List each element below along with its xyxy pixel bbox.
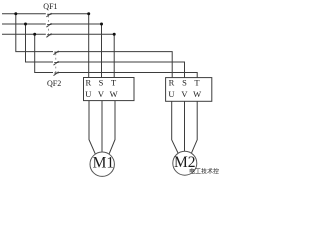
svg-text:U: U xyxy=(85,89,91,99)
svg-text:T: T xyxy=(194,77,200,87)
wire M1 lead V xyxy=(101,101,103,152)
wire branch 1 (tap L1 to QF2 to M2 box R) xyxy=(16,14,172,78)
wire M2 lead U xyxy=(172,101,179,153)
svg-text:QF1: QF1 xyxy=(43,2,57,11)
junction dot tap L3 xyxy=(33,33,36,36)
QF2 linkage (dashed) xyxy=(55,53,57,74)
svg-text:T: T xyxy=(111,77,117,87)
breaker QF2 pole 2 xyxy=(54,61,59,65)
breaker QF2 pole 3 xyxy=(54,72,59,76)
wire M1 lead U xyxy=(89,101,95,155)
svg-text:S: S xyxy=(182,77,187,87)
junction dot tap L1 xyxy=(14,12,17,15)
wire bus L3 xyxy=(2,34,114,77)
terminal box X2 xyxy=(166,78,212,102)
junction dot tap L2 xyxy=(24,23,27,26)
svg-text:V: V xyxy=(181,89,188,99)
breaker QF1 pole 2 xyxy=(46,23,51,27)
wire bus L1 xyxy=(2,14,89,78)
wire branch 3 (tap L3 to QF2 to M2 box T) xyxy=(35,34,198,77)
junction dot bus3 end xyxy=(113,33,116,36)
motor M1 xyxy=(90,152,114,176)
svg-text:S: S xyxy=(99,77,104,87)
svg-text:R: R xyxy=(85,77,91,87)
QF1 linkage (dashed) xyxy=(48,16,50,35)
breaker QF2 pole 1 xyxy=(54,51,59,55)
svg-text:V: V xyxy=(98,89,105,99)
wire branch 2 (tap L2 to QF2 to M2 box S) xyxy=(26,24,185,78)
junction dot bus2 end xyxy=(100,23,103,26)
wire M1 lead W xyxy=(109,101,115,155)
wire M2 lead V xyxy=(184,101,186,151)
wire M2 lead W xyxy=(191,101,197,153)
svg-text:U: U xyxy=(168,89,174,99)
svg-text:W: W xyxy=(110,89,118,99)
breaker QF1 pole 3 xyxy=(46,34,51,38)
motor M2 xyxy=(173,151,197,175)
svg-text:QF2: QF2 xyxy=(47,79,61,88)
svg-text:W: W xyxy=(193,89,201,99)
terminal box X1 xyxy=(84,78,135,101)
breaker QF1 pole 1 xyxy=(46,13,51,17)
svg-text:R: R xyxy=(169,77,175,87)
junction dot bus1 end xyxy=(87,12,90,15)
svg-text:电工技术控: 电工技术控 xyxy=(189,168,219,176)
svg-text:M1: M1 xyxy=(93,154,115,171)
wire bus L2 xyxy=(2,24,102,78)
